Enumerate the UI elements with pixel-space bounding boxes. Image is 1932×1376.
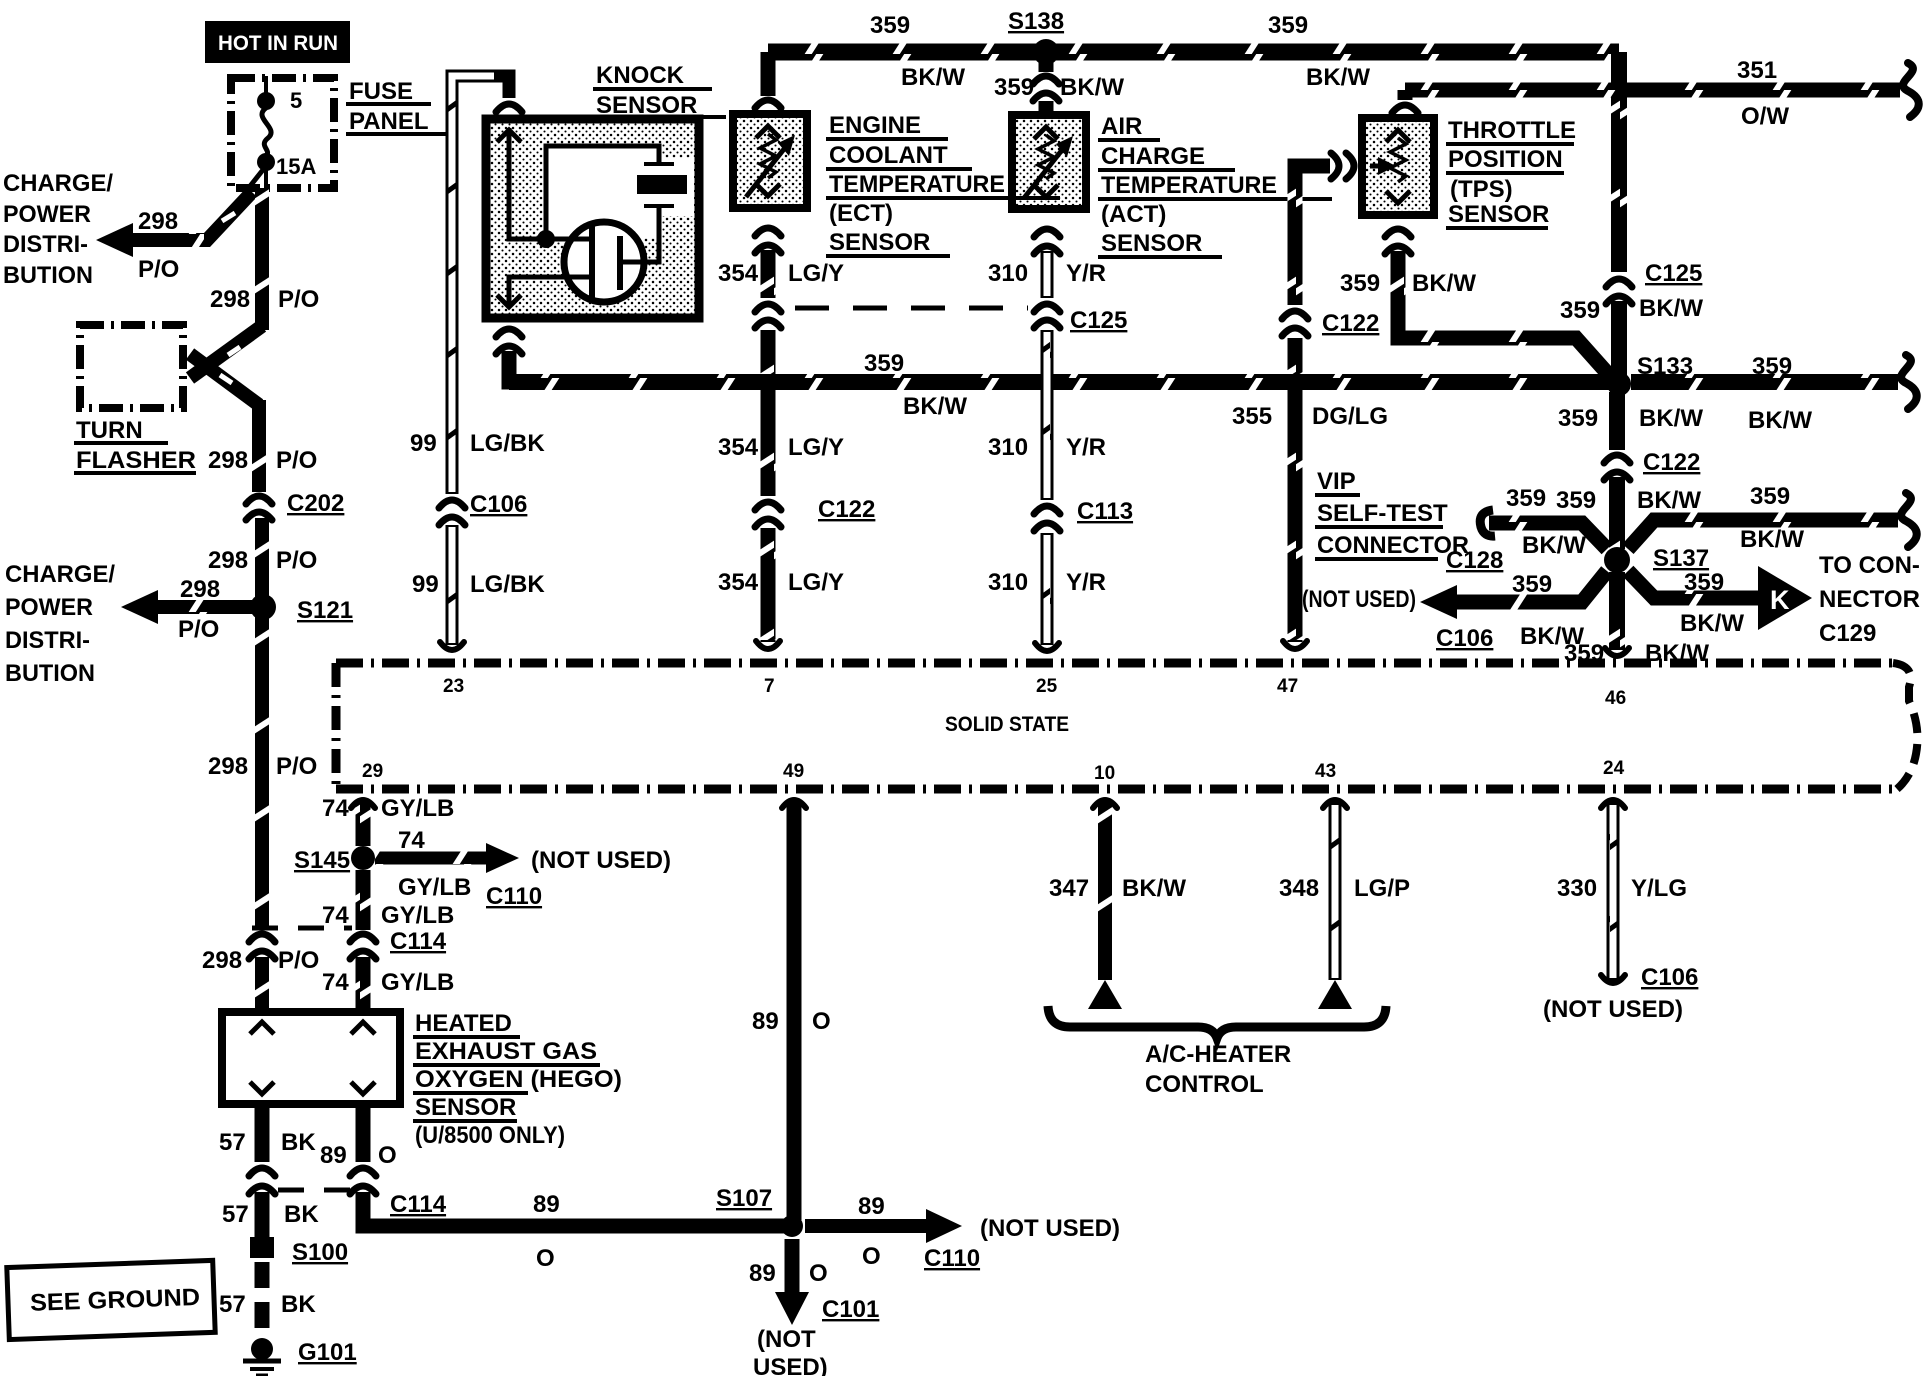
- svg-text:Y/LG: Y/LG: [1631, 875, 1687, 902]
- svg-text:BK/W: BK/W: [1412, 270, 1476, 297]
- wire 99 end cap at pin 23: [440, 642, 464, 650]
- connector C122 on 354: [755, 502, 781, 510]
- svg-text:POWER: POWER: [3, 201, 91, 228]
- svg-text:LG/BK: LG/BK: [470, 571, 545, 598]
- svg-text:O: O: [378, 1142, 397, 1169]
- svg-text:359: 359: [1684, 569, 1724, 596]
- wire 359 BK/W bus to right edge: [1631, 374, 1898, 390]
- wire 57 BK to S100: [255, 1192, 270, 1238]
- knock internal: crystal plate bottom: [644, 204, 674, 208]
- interface dashed line C114: [252, 926, 352, 931]
- wire 348 LG/P hollow from pin 43: [1323, 800, 1347, 808]
- wire 359 BK/W S133 to C122: [1609, 392, 1625, 450]
- splice S121: [250, 594, 276, 620]
- svg-text:29: 29: [362, 761, 383, 782]
- svg-text:(NOT: (NOT: [757, 1326, 816, 1353]
- svg-text:SOLID STATE: SOLID STATE: [945, 713, 1069, 736]
- svg-text:5: 5: [290, 88, 302, 113]
- svg-text:(TPS): (TPS): [1450, 176, 1513, 203]
- ECT thermistor symbol: [760, 134, 776, 178]
- svg-text:47: 47: [1277, 676, 1298, 697]
- TPS wiper connector: [1346, 153, 1354, 179]
- svg-text:P/O: P/O: [278, 947, 319, 974]
- connector C114 right half: [350, 1168, 376, 1176]
- svg-text:O: O: [862, 1243, 881, 1270]
- svg-text:P/O: P/O: [276, 547, 317, 574]
- wire 89 O from HEGO right pin: [356, 1104, 371, 1162]
- wire 74 GY/LB from pin 29: [351, 800, 375, 808]
- svg-text:EXHAUST GAS: EXHAUST GAS: [415, 1038, 597, 1065]
- svg-text:89: 89: [533, 1191, 560, 1218]
- svg-text:C122: C122: [1643, 449, 1700, 476]
- wire 298 P/O vertical from fuse: [255, 188, 269, 330]
- TPS bottom pin connector: [1385, 229, 1411, 237]
- wire 89 O elbow to S107: [363, 1192, 786, 1226]
- knock internal: lead crystal to transistor: [620, 206, 659, 262]
- svg-text:(ACT): (ACT): [1101, 201, 1166, 228]
- svg-text:GY/LB: GY/LB: [381, 969, 454, 996]
- wire terminal triangle pin 10: [1088, 980, 1122, 1009]
- svg-text:POWER: POWER: [5, 594, 93, 621]
- svg-text:S137: S137: [1653, 545, 1709, 572]
- svg-text:SELF-TEST: SELF-TEST: [1317, 500, 1448, 527]
- wire 359 BK/W from TPS bottom to S133: [1398, 251, 1617, 384]
- connector C106: [439, 500, 465, 508]
- svg-text:(NOT USED): (NOT USED): [1302, 586, 1416, 613]
- ECT sensor box: [733, 114, 807, 208]
- svg-text:C106: C106: [1641, 964, 1698, 991]
- ECT bottom pin connector: [755, 228, 781, 236]
- svg-text:LG/Y: LG/Y: [788, 434, 844, 461]
- wire 89 O branch right (not used): [805, 1219, 928, 1233]
- wire 298 P/O to HEGO: [255, 957, 269, 1014]
- svg-text:P/O: P/O: [178, 616, 219, 643]
- svg-text:310: 310: [988, 569, 1028, 596]
- svg-text:57: 57: [219, 1291, 246, 1318]
- svg-text:298: 298: [180, 576, 220, 603]
- svg-text:BK/W: BK/W: [1639, 405, 1703, 432]
- svg-text:TO CON-: TO CON-: [1819, 552, 1920, 579]
- svg-text:C114: C114: [390, 928, 447, 955]
- svg-text:DG/LG: DG/LG: [1312, 403, 1388, 430]
- TPS top feed: [1398, 90, 1413, 100]
- interface dashed line C125: [795, 306, 1028, 311]
- svg-text:99: 99: [410, 430, 437, 457]
- splice S100: [250, 1237, 274, 1258]
- svg-text:359: 359: [1556, 487, 1596, 514]
- splice S107: [781, 1215, 803, 1237]
- svg-text:S100: S100: [292, 1239, 348, 1266]
- svg-text:359: 359: [1560, 297, 1600, 324]
- connector C122 on 355: [1282, 311, 1308, 319]
- svg-text:P/O: P/O: [276, 753, 317, 780]
- wire 359 end cap at pin 46: [1605, 648, 1629, 656]
- svg-text:74: 74: [322, 902, 349, 929]
- svg-text:359: 359: [864, 350, 904, 377]
- svg-text:10: 10: [1094, 763, 1115, 784]
- svg-text:DISTRI-: DISTRI-: [5, 627, 90, 654]
- svg-text:C101: C101: [822, 1296, 879, 1323]
- svg-text:BK/W: BK/W: [901, 64, 965, 91]
- splice S145: [351, 846, 375, 870]
- arrow K to connector C129: [1758, 566, 1812, 630]
- svg-text:359: 359: [1268, 12, 1308, 39]
- svg-text:P/O: P/O: [278, 286, 319, 313]
- svg-text:7: 7: [764, 676, 775, 697]
- see ground note box: [7, 1260, 215, 1339]
- wire 298 P/O vertical to C202: [252, 400, 266, 492]
- svg-text:CHARGE: CHARGE: [1101, 143, 1205, 170]
- svg-text:330: 330: [1557, 875, 1597, 902]
- wire 298 P/O long vertical: [255, 614, 269, 928]
- knock internal: gate lead: [509, 277, 592, 304]
- svg-text:O: O: [536, 1245, 555, 1272]
- ACT thermistor symbol: [1038, 135, 1054, 179]
- svg-text:K: K: [1770, 585, 1790, 615]
- knock internal: crystal bar: [637, 175, 687, 194]
- ground G101: [251, 1338, 273, 1360]
- arrow to charge/power distribution (lower): [121, 590, 158, 624]
- splice S137: [1604, 547, 1630, 573]
- wire 74 GY/LB to HEGO: [356, 957, 371, 1014]
- svg-text:C125: C125: [1645, 260, 1702, 287]
- power source tag HOT IN RUN: [205, 21, 350, 63]
- svg-text:HEATED: HEATED: [415, 1010, 512, 1037]
- arrow to charge/power distribution (top): [96, 223, 133, 257]
- svg-text:C106: C106: [470, 491, 527, 518]
- svg-text:(U/8500 ONLY): (U/8500 ONLY): [415, 1122, 565, 1149]
- svg-text:BK/W: BK/W: [1740, 526, 1804, 553]
- svg-text:CHARGE/: CHARGE/: [3, 170, 113, 197]
- wire 359 BK/W upper-right branch to edge: [1628, 520, 1898, 549]
- svg-text:Y/R: Y/R: [1066, 434, 1106, 461]
- svg-text:KNOCK: KNOCK: [596, 62, 685, 89]
- knock internal: upper lead into transistor: [546, 237, 592, 242]
- svg-text:S138: S138: [1008, 8, 1064, 35]
- ACT bottom pin connector: [1034, 229, 1060, 237]
- svg-text:LG/BK: LG/BK: [470, 430, 545, 457]
- svg-text:C128: C128: [1446, 547, 1503, 574]
- svg-text:C110: C110: [486, 883, 542, 910]
- splice S133: [1607, 372, 1631, 396]
- connector C125 interface on 354: [755, 304, 781, 312]
- wire 355 DG/LG elbow: [1295, 166, 1330, 305]
- svg-text:P/O: P/O: [276, 447, 317, 474]
- knock sensor box: [486, 119, 699, 318]
- svg-text:PANEL: PANEL: [349, 108, 429, 135]
- wire 359 BK/W from knock to bus: [509, 351, 520, 382]
- wire 298 X-junction at turn flasher: [190, 326, 262, 378]
- svg-text:OXYGEN (HEGO): OXYGEN (HEGO): [415, 1066, 622, 1093]
- svg-text:359: 359: [1506, 485, 1546, 512]
- svg-text:359: 359: [1512, 571, 1552, 598]
- wire break squiggle 351: [1903, 63, 1919, 117]
- wire 89 O from pin 49 to S107: [782, 800, 806, 808]
- svg-text:C125: C125: [1070, 307, 1127, 334]
- svg-text:GY/LB: GY/LB: [398, 874, 471, 901]
- svg-text:VIP: VIP: [1317, 468, 1356, 495]
- svg-text:NECTOR: NECTOR: [1819, 586, 1920, 613]
- svg-text:HOT IN RUN: HOT IN RUN: [218, 32, 338, 55]
- wire 99 elbow stub into knock sensor: [494, 76, 509, 98]
- wire 57 BK dashed to ground: [255, 1262, 270, 1340]
- connector C114: [350, 934, 376, 942]
- wire 57 BK below HEGO: [255, 1104, 270, 1162]
- wire 354 end cap at pin 7: [756, 641, 780, 649]
- wire 359 BK/W C122 to S137: [1609, 477, 1625, 552]
- svg-text:S107: S107: [716, 1185, 772, 1212]
- svg-text:43: 43: [1315, 761, 1336, 782]
- wire 359 right column vertical: [1611, 52, 1627, 272]
- svg-text:89: 89: [858, 1193, 885, 1220]
- connector C125 interface on 310: [1034, 304, 1060, 312]
- svg-text:AIR: AIR: [1101, 113, 1142, 140]
- wire 359 BK/W to S133: [1611, 301, 1627, 376]
- svg-text:SENSOR: SENSOR: [415, 1094, 516, 1121]
- hollow 310 crossing over bus: [1041, 368, 1054, 396]
- svg-text:354: 354: [718, 569, 759, 596]
- wire 89 O down to C101 (not used): [785, 1239, 800, 1296]
- svg-text:O: O: [809, 1260, 828, 1287]
- svg-text:BK/W: BK/W: [1306, 64, 1370, 91]
- svg-text:46: 46: [1605, 688, 1626, 709]
- connector on 298 wire at C114 line: [249, 934, 275, 942]
- svg-text:C129: C129: [1819, 620, 1876, 647]
- knock internal: transistor bar: [589, 224, 595, 301]
- svg-text:DISTRI-: DISTRI-: [3, 231, 88, 258]
- interface dashed line C114: [278, 1188, 370, 1193]
- svg-text:310: 310: [988, 260, 1028, 287]
- svg-text:LG/Y: LG/Y: [788, 260, 844, 287]
- wire 359/351 upper horizontal to TPS: [1405, 83, 1900, 98]
- svg-text:COOLANT: COOLANT: [829, 142, 948, 169]
- knock internal: top lead to crystal: [546, 146, 659, 239]
- svg-text:BK/W: BK/W: [1522, 532, 1586, 559]
- wire 99 LG/BK hollow vertical: [452, 76, 496, 494]
- svg-text:GY/LB: GY/LB: [381, 795, 454, 822]
- HEGO sensor box: [222, 1012, 400, 1104]
- wire 330 end cap (not used): [1601, 975, 1625, 983]
- wire 359 BK/W S137 down to pin 46: [1609, 572, 1625, 650]
- connector C114 left half: [249, 1168, 275, 1176]
- svg-text:G101: G101: [298, 1339, 357, 1366]
- wire 359 BK/W lower-right branch to connector C129: [1628, 571, 1765, 598]
- svg-text:57: 57: [222, 1201, 249, 1228]
- svg-text:A/C-HEATER: A/C-HEATER: [1145, 1041, 1291, 1068]
- svg-text:BK/W: BK/W: [1680, 610, 1744, 637]
- svg-text:310: 310: [988, 434, 1028, 461]
- svg-text:BK/W: BK/W: [903, 393, 967, 420]
- svg-text:SENSOR: SENSOR: [829, 229, 930, 256]
- svg-text:LG/Y: LG/Y: [788, 569, 844, 596]
- connector C113: [1034, 506, 1060, 514]
- svg-text:USED): USED): [753, 1354, 828, 1376]
- svg-text:74: 74: [322, 969, 349, 996]
- wire terminal triangle pin 43: [1318, 980, 1352, 1009]
- svg-text:89: 89: [320, 1142, 347, 1169]
- svg-text:BK: BK: [284, 1201, 319, 1228]
- svg-text:S145: S145: [294, 847, 350, 874]
- svg-text:BK/W: BK/W: [1748, 407, 1812, 434]
- wire 359 BK/W lower-left branch (not used): [1452, 571, 1607, 602]
- wire 330 Y/LG hollow from pin 24: [1601, 800, 1625, 808]
- TPS potentiometer symbol: [1390, 138, 1406, 182]
- svg-text:298: 298: [202, 947, 242, 974]
- svg-text:74: 74: [322, 795, 349, 822]
- svg-text:TEMPERATURE: TEMPERATURE: [829, 171, 1005, 198]
- svg-text:359: 359: [1340, 270, 1380, 297]
- svg-text:C122: C122: [1322, 310, 1379, 337]
- svg-text:99: 99: [412, 571, 439, 598]
- svg-text:C113: C113: [1077, 498, 1133, 525]
- svg-text:15A: 15A: [276, 154, 316, 179]
- wire 347 BK/W from pin 10: [1093, 800, 1117, 808]
- svg-text:Y/R: Y/R: [1066, 260, 1106, 287]
- svg-text:BUTION: BUTION: [5, 660, 95, 687]
- ECT sensor feed from bus: [761, 52, 776, 96]
- svg-text:CONTROL: CONTROL: [1145, 1071, 1264, 1098]
- wire 354 LG/Y vertical: [761, 250, 776, 298]
- wire 74 GY/LB branch to C110 (not used): [375, 852, 492, 865]
- wire 298 branch diagonal to distribution arrow: [132, 192, 252, 240]
- svg-text:359: 359: [1750, 483, 1790, 510]
- svg-text:347: 347: [1049, 875, 1089, 902]
- turn flasher box: [80, 325, 183, 408]
- svg-text:C202: C202: [287, 490, 344, 517]
- wire 74 GY/LB S145 to C114: [356, 870, 371, 930]
- svg-text:POSITION: POSITION: [1448, 146, 1563, 173]
- svg-text:359: 359: [994, 74, 1034, 101]
- solid state module dashed box: [336, 659, 1893, 668]
- svg-text:C122: C122: [818, 496, 875, 523]
- svg-text:298: 298: [210, 286, 250, 313]
- svg-text:351: 351: [1737, 57, 1777, 84]
- svg-text:298: 298: [208, 547, 248, 574]
- svg-text:O: O: [812, 1008, 831, 1035]
- wire 359 BK/W upper-left branch to C128: [1489, 523, 1607, 549]
- TPS sensor box: [1362, 118, 1434, 215]
- svg-text:74: 74: [398, 827, 425, 854]
- svg-text:P/O: P/O: [138, 256, 179, 283]
- svg-text:BK/W: BK/W: [1122, 875, 1186, 902]
- svg-text:25: 25: [1036, 676, 1058, 697]
- svg-text:BK/W: BK/W: [1060, 74, 1124, 101]
- svg-text:359: 359: [1558, 405, 1598, 432]
- svg-text:(NOT USED): (NOT USED): [1543, 996, 1683, 1023]
- svg-text:FLASHER: FLASHER: [76, 447, 196, 474]
- fuse panel box: [231, 78, 334, 188]
- svg-text:24: 24: [1603, 758, 1625, 779]
- connector C122 right column: [1604, 455, 1630, 463]
- svg-text:89: 89: [749, 1260, 776, 1287]
- knock internal: node dot: [537, 230, 555, 248]
- svg-text:THROTTLE: THROTTLE: [1448, 117, 1576, 144]
- knock internal: left pin lead: [509, 128, 546, 239]
- connector C125: [1606, 279, 1632, 287]
- svg-text:BK: BK: [281, 1129, 316, 1156]
- svg-text:BUTION: BUTION: [3, 262, 93, 289]
- svg-text:ENGINE: ENGINE: [829, 112, 921, 139]
- wire 355 end cap at pin 47: [1283, 641, 1307, 649]
- svg-text:355: 355: [1232, 403, 1272, 430]
- wire 298 branch to distribution arrow (lower): [156, 600, 252, 614]
- svg-text:49: 49: [783, 761, 804, 782]
- wire 359 BK/W second bus knock to S133: [509, 374, 1613, 390]
- svg-text:SENSOR: SENSOR: [1101, 230, 1202, 257]
- connector C202: [246, 496, 272, 504]
- svg-text:BK/W: BK/W: [1639, 295, 1703, 322]
- wire 298 P/O to S121: [255, 518, 269, 600]
- svg-text:CHARGE/: CHARGE/: [5, 561, 115, 588]
- svg-text:BK/W: BK/W: [1637, 487, 1701, 514]
- svg-text:LG/P: LG/P: [1354, 875, 1410, 902]
- svg-text:354: 354: [718, 260, 759, 287]
- svg-text:57: 57: [219, 1129, 246, 1156]
- knock internal: transistor circle: [564, 222, 644, 302]
- svg-text:SENSOR: SENSOR: [1448, 201, 1549, 228]
- svg-text:298: 298: [208, 753, 248, 780]
- svg-text:298: 298: [208, 447, 248, 474]
- knock internal: crystal plate top: [644, 162, 674, 166]
- svg-text:BK: BK: [281, 1291, 316, 1318]
- splice S138: [1033, 39, 1059, 65]
- A/C-heater control brace: [1048, 1006, 1386, 1038]
- svg-text:TEMPERATURE: TEMPERATURE: [1101, 172, 1277, 199]
- svg-text:C106: C106: [1436, 625, 1493, 652]
- svg-text:298: 298: [138, 208, 178, 235]
- svg-text:23: 23: [443, 676, 464, 697]
- wire 359 BK/W top bus: [768, 44, 1619, 61]
- svg-text:354: 354: [718, 434, 759, 461]
- svg-text:348: 348: [1279, 875, 1319, 902]
- svg-text:TURN: TURN: [76, 417, 143, 444]
- svg-text:O/W: O/W: [1741, 103, 1789, 130]
- svg-text:(ECT): (ECT): [829, 200, 893, 227]
- svg-text:359: 359: [870, 12, 910, 39]
- svg-text:GY/LB: GY/LB: [381, 902, 454, 929]
- wire 310 Y/R hollow vertical: [1041, 251, 1054, 298]
- svg-text:FUSE: FUSE: [349, 78, 413, 105]
- svg-text:(NOT USED): (NOT USED): [980, 1215, 1120, 1242]
- ACT sensor box: [1012, 115, 1086, 209]
- knock bottom pin connector: [496, 329, 522, 337]
- svg-text:S121: S121: [297, 597, 353, 624]
- wire 310 end cap at pin 25: [1035, 643, 1059, 651]
- svg-text:89: 89: [752, 1008, 779, 1035]
- wire 359 BK/W drop from S138: [1039, 58, 1054, 72]
- svg-text:C110: C110: [924, 1245, 980, 1272]
- svg-text:359: 359: [1752, 353, 1792, 380]
- svg-text:C114: C114: [390, 1191, 447, 1218]
- fuse F5 15A: [264, 76, 268, 95]
- svg-text:Y/R: Y/R: [1066, 569, 1106, 596]
- svg-text:(NOT USED): (NOT USED): [531, 847, 671, 874]
